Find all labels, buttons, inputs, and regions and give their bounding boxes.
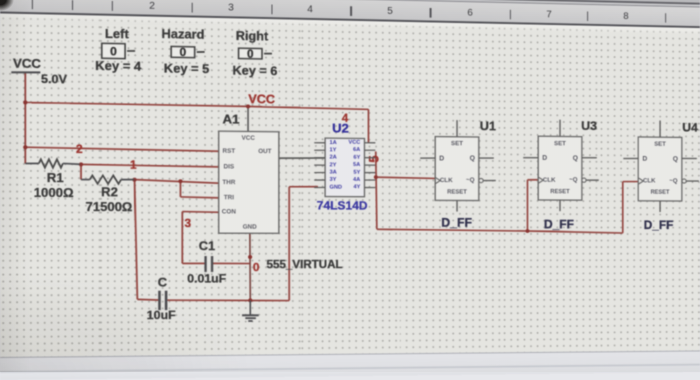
svg-text:~Q: ~Q	[669, 178, 677, 184]
svg-text:DIS: DIS	[224, 164, 235, 171]
svg-text:CLK: CLK	[543, 177, 556, 184]
svg-text:U4: U4	[682, 120, 698, 134]
svg-text:VCC: VCC	[348, 140, 360, 146]
svg-text:CLK: CLK	[440, 177, 453, 184]
svg-text:U3: U3	[581, 119, 597, 133]
svg-text:SET: SET	[654, 141, 666, 147]
svg-text:~Q: ~Q	[466, 177, 475, 184]
svg-text:Right: Right	[236, 29, 269, 44]
svg-text:THR: THR	[222, 179, 235, 186]
svg-text:3Y: 3Y	[330, 177, 337, 183]
svg-text:Q: Q	[573, 154, 579, 162]
svg-text:0.01uF: 0.01uF	[187, 272, 226, 285]
svg-text:VCC: VCC	[248, 92, 275, 107]
svg-text:5A: 5A	[353, 162, 361, 168]
svg-text:5Y: 5Y	[353, 170, 360, 176]
svg-text:C: C	[158, 275, 167, 289]
svg-text:1000Ω: 1000Ω	[34, 185, 74, 200]
svg-text:D_FF: D_FF	[441, 216, 472, 230]
svg-text:D: D	[439, 154, 444, 162]
svg-text:GND: GND	[330, 185, 342, 191]
svg-text:6Y: 6Y	[353, 155, 360, 161]
svg-text:RESET: RESET	[550, 188, 569, 195]
svg-text:Q: Q	[470, 154, 476, 162]
svg-text:D: D	[642, 154, 647, 162]
svg-text:C1: C1	[199, 239, 215, 253]
svg-text:0: 0	[247, 47, 254, 60]
svg-text:D_FF: D_FF	[544, 217, 574, 231]
svg-text:2: 2	[76, 143, 83, 157]
svg-text:Key = 6: Key = 6	[232, 63, 277, 78]
svg-text:VCC: VCC	[242, 135, 256, 142]
svg-text:SET: SET	[451, 141, 463, 148]
svg-text:1: 1	[130, 158, 137, 171]
svg-text:4A: 4A	[353, 177, 361, 183]
svg-text:CLK: CLK	[643, 178, 656, 184]
svg-text:~Q: ~Q	[569, 177, 577, 183]
svg-text:10uF: 10uF	[147, 308, 176, 322]
svg-text:0: 0	[253, 261, 260, 274]
svg-text:SET: SET	[554, 140, 566, 147]
svg-text:0: 0	[110, 45, 117, 59]
svg-text:71500Ω: 71500Ω	[86, 200, 133, 215]
svg-text:1A: 1A	[330, 140, 338, 146]
svg-text:D: D	[542, 154, 547, 162]
svg-text:2A: 2A	[330, 155, 338, 161]
svg-text:U1: U1	[480, 119, 497, 133]
svg-text:74LS14D: 74LS14D	[317, 199, 368, 212]
svg-text:R1: R1	[47, 171, 64, 186]
svg-text:5.0V: 5.0V	[41, 72, 68, 86]
svg-text:D_FF: D_FF	[644, 218, 674, 232]
svg-text:RESET: RESET	[447, 189, 467, 196]
svg-text:RESET: RESET	[651, 189, 670, 195]
svg-text:1Y: 1Y	[330, 147, 337, 153]
svg-text:Key = 4: Key = 4	[95, 59, 142, 74]
svg-text:555_VIRTUAL: 555_VIRTUAL	[266, 258, 342, 271]
svg-text:Key = 5: Key = 5	[164, 61, 209, 76]
svg-text:Left: Left	[105, 26, 130, 41]
svg-text:GND: GND	[243, 224, 257, 231]
svg-text:TRI: TRI	[224, 194, 234, 201]
svg-text:Hazard: Hazard	[162, 27, 205, 42]
svg-text:5: 5	[366, 155, 381, 163]
svg-text:3A: 3A	[330, 170, 338, 176]
svg-text:4Y: 4Y	[353, 185, 360, 191]
svg-text:R2: R2	[101, 185, 118, 199]
svg-text:U2: U2	[332, 121, 349, 135]
svg-text:6A: 6A	[353, 147, 361, 153]
svg-text:RST: RST	[223, 148, 236, 155]
svg-text:3: 3	[184, 217, 191, 230]
svg-text:VCC: VCC	[13, 56, 41, 71]
svg-text:2Y: 2Y	[330, 162, 337, 168]
svg-text:OUT: OUT	[258, 148, 271, 155]
svg-text:0: 0	[180, 46, 187, 59]
svg-text:A1: A1	[223, 112, 241, 126]
svg-text:CON: CON	[222, 209, 236, 216]
svg-text:Q: Q	[673, 154, 678, 162]
